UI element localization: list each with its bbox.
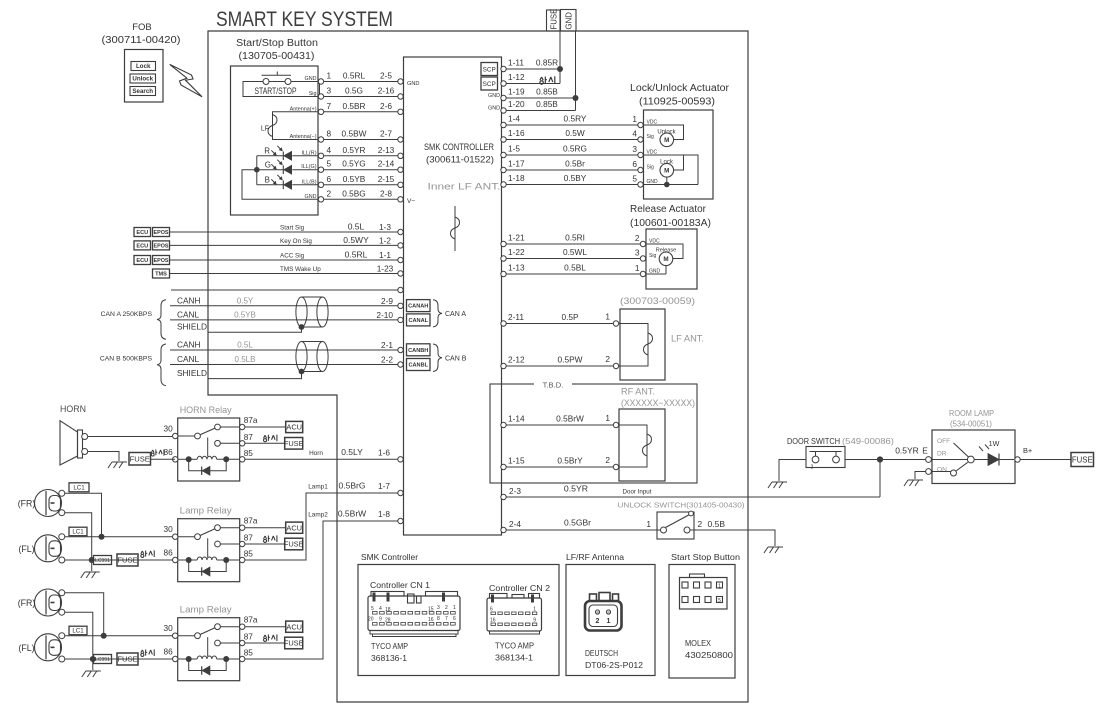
svg-text:ECU: ECU	[136, 243, 148, 249]
svg-text:0.5BrG: 0.5BrG	[339, 481, 366, 491]
svg-text:0.5GBr: 0.5GBr	[564, 518, 591, 528]
svg-text:86: 86	[163, 548, 173, 558]
svg-text:FUSE: FUSE	[130, 454, 150, 463]
svg-text:Lock: Lock	[136, 63, 151, 70]
svg-text:M: M	[664, 168, 669, 175]
TYCO AMP 368136-1 text	[371, 641, 408, 663]
svg-text:1-15: 1-15	[508, 456, 525, 466]
svg-text:1-14: 1-14	[508, 414, 525, 424]
Lamp Relay pin 87 wire to FUSE	[220, 632, 303, 649]
Lamp Relay pin 30	[163, 524, 177, 539]
svg-text:8: 8	[327, 129, 332, 139]
svg-text:87a: 87a	[244, 615, 258, 625]
svg-text:Sig: Sig	[309, 91, 317, 97]
svg-text:HORN: HORN	[60, 404, 86, 415]
svg-text:SMK Controller: SMK Controller	[361, 553, 418, 562]
svg-text:1-20: 1-20	[508, 99, 525, 109]
svg-text:OFF: OFF	[937, 438, 950, 445]
wire FUSE to horn relay 86	[151, 458, 176, 460]
svg-text:1: 1	[533, 607, 536, 613]
svg-text:0.85B: 0.85B	[536, 99, 558, 109]
svg-text:2: 2	[596, 618, 600, 625]
svg-text:3: 3	[437, 605, 440, 611]
svg-text:Sig: Sig	[647, 134, 654, 140]
CAN B CANH wire 0.5L to SMK 2-1	[170, 340, 403, 353]
start/stop pin 8 wire 0.5BW to SMK 2-7	[290, 129, 404, 143]
svg-text:0.5PW: 0.5PW	[558, 355, 583, 365]
svg-text:SMART KEY SYSTEM: SMART KEY SYSTEM	[216, 8, 393, 31]
svg-text:Lamp Relay: Lamp Relay	[180, 605, 232, 616]
svg-text:2: 2	[605, 354, 610, 364]
svg-text:0.5RI: 0.5RI	[565, 233, 585, 243]
svg-text:FUSE: FUSE	[1072, 455, 1093, 464]
HORN Relay flyback diode	[189, 459, 227, 475]
svg-text:86: 86	[163, 647, 173, 657]
svg-text:1: 1	[327, 71, 332, 81]
Lamp Relay box	[178, 506, 240, 582]
LED B	[257, 175, 318, 189]
svg-text:SHIELD: SHIELD	[177, 368, 207, 378]
svg-text:87: 87	[244, 432, 254, 442]
svg-text:1-4: 1-4	[508, 114, 520, 124]
wire 1-16 0.5W to actuator pin 4	[501, 128, 654, 142]
wire GND to 1-19/1-20	[573, 31, 579, 111]
svg-text:2: 2	[605, 455, 610, 465]
svg-text:GND: GND	[407, 81, 419, 87]
svg-text:0.5YR: 0.5YR	[895, 446, 919, 456]
svg-text:1: 1	[607, 618, 611, 625]
svg-text:UNLOCK SWITCH(301405-00430): UNLOCK SWITCH(301405-00430)	[618, 501, 746, 510]
wire 2-11 0.5P to LF ANT pin 1	[501, 312, 619, 327]
title SMART KEY SYSTEM	[216, 8, 393, 31]
svg-text:28: 28	[385, 618, 391, 624]
svg-text:0.5W: 0.5W	[565, 128, 585, 138]
svg-text:ACU: ACU	[286, 423, 302, 432]
svg-text:0.5YR: 0.5YR	[342, 145, 365, 155]
spare wire to SMK pin	[171, 287, 403, 292]
lamp FR 1	[18, 490, 65, 517]
Lock/Unlock Actuator box	[644, 110, 714, 199]
svg-text:0.5Br: 0.5Br	[565, 159, 585, 169]
svg-text:MOLEX: MOLEX	[685, 638, 711, 648]
svg-text:1-23: 1-23	[377, 264, 394, 274]
svg-text:30: 30	[163, 524, 173, 534]
Controller CN 1 label	[370, 581, 430, 590]
start/stop pin 1 wire 0.5RL to SMK 2-5	[305, 71, 404, 85]
start/stop switch START/STOP	[243, 72, 320, 97]
FOB Unlock button	[130, 74, 156, 83]
svg-text:1-5: 1-5	[508, 144, 520, 154]
TMS Wake Up wire from TMS to SMK 1-23	[153, 264, 404, 279]
svg-text:ON: ON	[937, 467, 947, 474]
SCP box pin 1-11	[481, 63, 498, 76]
svg-text:(FL): (FL)	[18, 544, 34, 554]
Controller CN 2 label	[489, 584, 550, 593]
svg-text:85: 85	[244, 448, 254, 458]
svg-text:(300711-00420): (300711-00420)	[102, 35, 181, 46]
ACC Sig wire from ECU/EPOS to SMK 1-1	[134, 250, 403, 265]
Lamp Relay pin 85 output	[240, 509, 404, 662]
T.B.D. box	[490, 379, 697, 483]
wire 1-5 0.5RG to actuator pin 3	[501, 144, 658, 158]
svg-text:CANL: CANL	[177, 354, 200, 364]
Release Actuator title	[630, 204, 711, 229]
svg-text:E: E	[922, 446, 928, 456]
wire 1-13 0.5BL to release pin 1	[501, 263, 661, 277]
CAN A CANL wire 0.5YB to SMK 2-10	[170, 309, 403, 322]
svg-text:2-13: 2-13	[378, 145, 395, 155]
svg-text:EPOS: EPOS	[154, 258, 169, 264]
svg-text:(110925-00593): (110925-00593)	[639, 97, 715, 108]
svg-text:ACU: ACU	[286, 523, 302, 532]
CAN B twisted pair shield cylinder	[296, 342, 328, 372]
DEUTSCH text	[585, 648, 643, 670]
svg-text:0.5WY: 0.5WY	[343, 235, 369, 245]
FOB Search button	[130, 87, 156, 96]
svg-text:1-1: 1-1	[379, 250, 391, 260]
wire door input down to SMK 2-3	[879, 460, 881, 498]
svg-text:LC1: LC1	[72, 529, 84, 536]
svg-text:1-21: 1-21	[508, 233, 525, 243]
svg-text:CANBL: CANBL	[408, 363, 428, 369]
wire 1-11 0.85R	[501, 58, 560, 72]
Lamp Relay coil	[178, 557, 240, 563]
wire 1-22 0.5WL to release pin 3	[501, 247, 657, 261]
svg-text:4: 4	[632, 129, 637, 139]
SMK pin 2-5 GND label	[407, 81, 419, 87]
CAN B CANBH/CANBL boxes	[407, 344, 467, 372]
HORN Relay contacts and armature	[178, 424, 221, 456]
Start/Stop Button box	[231, 66, 319, 215]
DEUTSCH DT06-2S-P012 connector drawing	[585, 593, 622, 631]
wire 1-4 0.5RY to actuator pin 1	[501, 114, 658, 128]
svg-text:368136-1: 368136-1	[371, 653, 407, 663]
svg-text:1-16: 1-16	[508, 128, 525, 138]
SMK CONTROLLER U1 box	[404, 57, 502, 535]
RF ANT title	[621, 387, 695, 409]
svg-text:1-8: 1-8	[378, 509, 390, 519]
svg-text:CANBH: CANBH	[408, 348, 428, 354]
svg-text:4: 4	[327, 145, 332, 155]
svg-text:0.5RG: 0.5RG	[563, 144, 587, 154]
svg-text:(549-00086): (549-00086)	[842, 436, 894, 446]
svg-text:0.5RL: 0.5RL	[343, 71, 366, 81]
HORN Relay box	[178, 405, 240, 481]
svg-text:DOOR SWITCH: DOOR SWITCH	[787, 436, 840, 446]
svg-text:1W: 1W	[989, 439, 1000, 448]
svg-text:ECU: ECU	[136, 230, 148, 236]
wire 2-3 0.5YR Door Input	[501, 484, 880, 500]
unlock motor M	[644, 125, 684, 147]
svg-text:0.5BrW: 0.5BrW	[556, 414, 584, 424]
HORN Relay coil	[178, 456, 240, 462]
LF ANT coil	[619, 324, 653, 367]
svg-text:1-19: 1-19	[508, 87, 525, 97]
FOB remote label	[102, 22, 181, 46]
svg-text:2: 2	[698, 519, 703, 529]
Lock/Unlock Actuator title	[630, 83, 730, 108]
svg-text:7: 7	[445, 616, 448, 622]
svg-text:1-2: 1-2	[379, 235, 391, 245]
svg-text:(FR): (FR)	[18, 598, 36, 608]
HORN Relay pin 85 output	[240, 447, 404, 462]
svg-text:0.5BL: 0.5BL	[564, 263, 586, 273]
svg-text:(FL): (FL)	[18, 643, 34, 653]
svg-text:CANAL: CANAL	[408, 318, 428, 324]
svg-text:1-11: 1-11	[508, 58, 524, 68]
0.5YR E label	[895, 446, 928, 456]
svg-text:SCP: SCP	[483, 66, 496, 73]
svg-text:368134-1: 368134-1	[495, 653, 533, 663]
wire 1-14 0.5BrW to RF ANT pin 1	[501, 413, 619, 428]
svg-text:M: M	[664, 137, 669, 144]
svg-text:1: 1	[646, 519, 651, 529]
wire 0.5B to ground	[690, 519, 775, 546]
svg-text:2-16: 2-16	[378, 86, 395, 96]
svg-text:LC1: LC1	[72, 628, 84, 635]
GND box top	[561, 10, 577, 32]
svg-text:(130705-00431): (130705-00431)	[239, 51, 315, 62]
wire room lamp ON to ground	[915, 472, 926, 480]
LED R	[257, 146, 318, 160]
wire 2-12 0.5PW to LF ANT pin 2	[501, 354, 619, 369]
CAN A CANAH/CANAL boxes	[407, 300, 467, 327]
room lamp switch OFF/DR/ON	[926, 438, 975, 476]
UNLOCK SWITCH title	[618, 501, 746, 510]
LF/RF Antenna detail box	[566, 553, 655, 676]
SMK Controller connector detail box	[358, 553, 559, 676]
Start Stop Button detail box	[669, 553, 740, 678]
LC1 box FR 1	[69, 483, 89, 492]
svg-text:0.5WL: 0.5WL	[563, 247, 587, 257]
Lamp Relay pin 86	[163, 647, 177, 662]
FUSE box horn	[129, 449, 164, 465]
lamp FL 2	[18, 633, 64, 662]
FUSE box room lamp	[1071, 453, 1094, 467]
svg-text:Inner LF ANT.: Inner LF ANT.	[428, 182, 501, 192]
svg-text:0.5L: 0.5L	[348, 222, 365, 232]
svg-text:ROOM LAMP: ROOM LAMP	[949, 409, 994, 418]
Lamp Relay pin 86	[163, 548, 177, 563]
svg-text:0.5G: 0.5G	[345, 86, 363, 96]
wire FR1 top to 30 line	[65, 493, 105, 539]
wire 2-4 0.5GBr to unlock switch	[501, 518, 661, 533]
svg-text:CANH: CANH	[177, 295, 201, 305]
start/stop pin 6 wire 0.5YB to SMK 2-15	[302, 174, 403, 188]
LF antenna loop in start/stop button	[261, 112, 318, 140]
svg-text:86: 86	[163, 447, 173, 457]
FOB Lock button	[131, 62, 156, 71]
wire 1-19 0.85B	[488, 87, 575, 101]
HORN Relay pin 87 wire to FUSE	[220, 432, 303, 449]
HORN Relay pin 87a wire to ACU	[220, 415, 302, 433]
start/stop pin 2 wire 0.5BG to SMK 2-8	[305, 188, 404, 202]
wire 1-21 0.5RI to release pin 2	[501, 233, 660, 247]
CAN A CANH wire 0.5Y to SMK 2-9	[170, 295, 403, 308]
wire 1-12 sangsi	[501, 72, 560, 86]
svg-text:2-11: 2-11	[508, 312, 524, 322]
LF ANT title	[620, 296, 695, 306]
svg-text:1-3: 1-3	[379, 222, 391, 232]
svg-text:Lamp2: Lamp2	[308, 512, 328, 519]
lock motor M	[644, 155, 699, 187]
svg-text:0.5BW: 0.5BW	[342, 129, 367, 139]
svg-text:Lamp Relay: Lamp Relay	[180, 506, 232, 517]
svg-text:16: 16	[490, 618, 496, 624]
svg-text:0.5Y: 0.5Y	[237, 296, 254, 305]
Lamp Relay contacts and armature	[178, 525, 221, 557]
LED G	[257, 160, 318, 174]
door switch S2	[806, 447, 845, 471]
svg-text:ECU: ECU	[136, 258, 148, 264]
svg-text:FUSE: FUSE	[284, 540, 304, 549]
room lamp LED 1W	[974, 439, 1014, 466]
svg-text:5: 5	[632, 174, 637, 184]
LED common wire and junction	[242, 156, 318, 200]
svg-text:2: 2	[445, 605, 448, 611]
svg-text:87: 87	[244, 533, 254, 543]
start/stop pin 5 wire 0.5YG to SMK 2-14	[301, 159, 403, 173]
svg-text:FUSE: FUSE	[284, 639, 304, 648]
svg-text:6: 6	[490, 607, 493, 613]
svg-text:6: 6	[632, 159, 637, 169]
svg-text:CANL: CANL	[177, 309, 200, 319]
MOLEX text	[685, 638, 733, 660]
outer system boundary box	[208, 31, 748, 702]
wire FL2 low side with LC991 FUSE to relay 86	[65, 649, 175, 665]
svg-text:Search: Search	[132, 88, 153, 95]
room lamp box	[932, 430, 1015, 484]
svg-text:0.5BG: 0.5BG	[342, 188, 366, 198]
wire FR1 bottom to 86 line	[65, 513, 95, 563]
svg-text:LC991: LC991	[95, 657, 110, 663]
CAN A brace and label	[101, 300, 166, 339]
svg-text:2-12: 2-12	[508, 355, 525, 365]
svg-text:2-5: 2-5	[380, 71, 392, 81]
svg-text:2-7: 2-7	[380, 129, 392, 139]
wire FR2 bottom to 86 line	[65, 612, 96, 662]
svg-text:3: 3	[327, 86, 332, 96]
ground for lamp group 1	[81, 560, 100, 578]
svg-text:FUSE: FUSE	[117, 556, 137, 565]
svg-text:2: 2	[811, 465, 814, 471]
ground for door switch	[768, 482, 787, 488]
svg-text:TMS Wake Up: TMS Wake Up	[280, 266, 321, 273]
HORN Relay pin 30	[163, 424, 177, 439]
FUSE box top	[547, 9, 561, 31]
LC1 box FL 1	[69, 527, 87, 536]
svg-text:1: 1	[453, 605, 456, 611]
Lamp Relay flyback diode	[189, 659, 227, 675]
svg-text:TYCO AMP: TYCO AMP	[371, 641, 408, 651]
svg-text:5: 5	[371, 606, 374, 612]
svg-text:1-7: 1-7	[378, 481, 390, 491]
Lamp Relay coil	[178, 656, 240, 662]
SMK pin 2-8 V- label	[407, 198, 415, 205]
svg-text:6: 6	[453, 616, 456, 622]
svg-text:SHIELD: SHIELD	[177, 322, 207, 332]
Release Actuator box	[646, 229, 697, 289]
svg-text:2-9: 2-9	[381, 296, 393, 306]
wire 1-20 0.85B	[488, 99, 575, 113]
SCP box pin 1-12	[481, 77, 498, 90]
CAN A SHIELD wire	[177, 322, 304, 333]
svg-text:2: 2	[327, 188, 332, 198]
svg-text:Door Input: Door Input	[623, 489, 652, 496]
Inner LF ANT label and coil	[428, 182, 501, 252]
svg-text:1-22: 1-22	[508, 247, 525, 257]
wire horn low side to ground	[88, 452, 119, 462]
svg-text:Start/Stop Button: Start/Stop Button	[236, 38, 318, 49]
svg-text:1: 1	[632, 114, 637, 124]
svg-text:START/STOP: START/STOP	[255, 86, 297, 96]
wire door switch to ground	[779, 460, 806, 482]
wire 1-15 0.5BrY to RF ANT pin 2	[501, 455, 619, 470]
svg-text:0.5YG: 0.5YG	[342, 159, 366, 169]
svg-text:1: 1	[605, 312, 610, 322]
lamp FR 2	[18, 589, 65, 616]
wire FL1 to relay pin 30	[65, 536, 175, 538]
ground for lamp group 2	[82, 659, 101, 677]
svg-text:ACC Sig: ACC Sig	[280, 253, 305, 260]
Lamp Relay pin 85 output	[240, 481, 404, 563]
svg-text:1-13: 1-13	[508, 263, 525, 273]
svg-text:(FR): (FR)	[18, 499, 36, 509]
svg-text:1: 1	[635, 263, 640, 273]
wire horn to relay pin 30	[88, 436, 172, 438]
wire 1-18 0.5BY to actuator pin 5	[501, 173, 658, 187]
svg-text:SCP: SCP	[483, 81, 496, 88]
svg-text:TYCO AMP: TYCO AMP	[495, 641, 534, 651]
Key On Sig wire from ECU/EPOS to SMK 1-2	[134, 235, 403, 250]
svg-text:20: 20	[368, 617, 374, 623]
svg-text:CAN A 250KBPS: CAN A 250KBPS	[101, 311, 153, 318]
svg-text:0.5BR: 0.5BR	[342, 101, 365, 111]
svg-text:2: 2	[635, 233, 640, 243]
wire FL1 low side with LC991 FUSE to relay 86	[65, 550, 175, 566]
svg-text:2-1: 2-1	[381, 340, 393, 350]
Start/Stop Button title	[236, 38, 318, 62]
svg-text:87: 87	[244, 632, 254, 642]
svg-text:0.5BrW: 0.5BrW	[338, 509, 366, 519]
svg-text:Horn: Horn	[309, 450, 323, 457]
svg-text:LF: LF	[261, 126, 269, 133]
svg-text:0.5BrY: 0.5BrY	[557, 456, 583, 466]
svg-text:B: B	[265, 176, 270, 185]
svg-text:V−: V−	[407, 198, 415, 205]
svg-text:Start Stop Button: Start Stop Button	[671, 553, 740, 562]
svg-text:0.5B: 0.5B	[708, 519, 726, 529]
svg-text:(300611-01522): (300611-01522)	[426, 155, 494, 166]
svg-text:0.5P: 0.5P	[561, 312, 579, 322]
LC1 box FL 2	[69, 626, 87, 635]
svg-text:2-2: 2-2	[381, 355, 393, 365]
svg-text:B+: B+	[1023, 446, 1032, 455]
svg-text:5: 5	[327, 159, 332, 169]
ROOM LAMP title	[949, 409, 994, 429]
svg-text:FOB: FOB	[132, 22, 152, 33]
svg-text:DEUTSCH: DEUTSCH	[585, 648, 618, 658]
Lamp Relay pin 87a wire to ACU	[220, 516, 302, 534]
svg-text:2-4: 2-4	[509, 519, 521, 529]
svg-text:18: 18	[385, 607, 391, 613]
LF ANT box	[620, 309, 704, 380]
svg-text:5: 5	[718, 598, 721, 604]
TYCO AMP 368136-1 connector CN1 drawing	[368, 592, 460, 637]
wire door switch to room lamp E with junction	[845, 456, 926, 462]
svg-text:1-12: 1-12	[508, 72, 525, 82]
svg-text:CANH: CANH	[177, 340, 201, 350]
